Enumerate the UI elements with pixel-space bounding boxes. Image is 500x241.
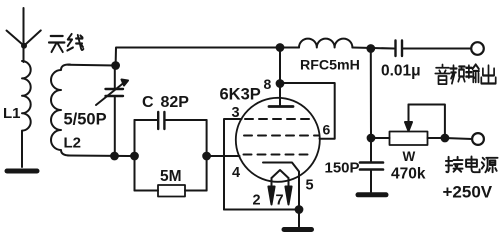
wire: to ground bbox=[298, 210, 300, 229]
heater lead pin 2 bbox=[271, 178, 273, 190]
potentiometer W 470k bbox=[371, 137, 390, 139]
svg-text:4: 4 bbox=[232, 165, 240, 181]
junction dot (pin 8 on top rail) bbox=[277, 44, 284, 51]
wire: pin 3 to cathode bus bbox=[224, 119, 242, 210]
terminal: audio output bbox=[471, 42, 484, 55]
svg-text:6K3P: 6K3P bbox=[220, 86, 261, 104]
junction dot H bbox=[442, 135, 449, 142]
capacitor C2 0.01u bbox=[394, 41, 396, 57]
junction dot (g2 tie) bbox=[277, 80, 284, 87]
inductor L1 bbox=[22, 61, 31, 167]
wire: g2 tie to pin 6 bbox=[280, 83, 335, 139]
anode bar bbox=[269, 105, 293, 108]
ground (cathode) bbox=[284, 227, 312, 232]
ground (150P) bbox=[358, 192, 386, 197]
capacitor C3 150P bbox=[370, 138, 372, 162]
choke RFC 5mH bbox=[299, 39, 352, 48]
junction dot D (RC right node / grid) bbox=[203, 153, 210, 160]
grid g3 (dashed, pin 3) bbox=[245, 118, 315, 120]
svg-text:7: 7 bbox=[276, 193, 284, 209]
svg-text:82P: 82P bbox=[161, 94, 190, 111]
RC box left side bbox=[134, 120, 136, 191]
svg-text:470k: 470k bbox=[391, 166, 426, 183]
junction dot C (RC left node) bbox=[131, 153, 138, 160]
junction dot B (varcap bottom) bbox=[111, 153, 118, 160]
ground (L1) bbox=[7, 169, 37, 174]
tube 6K3P envelope U1 bbox=[236, 98, 320, 182]
svg-text:0.01μ: 0.01μ bbox=[381, 63, 421, 80]
cathode (pin 5) bbox=[263, 163, 299, 210]
junction dot A (tank top) bbox=[112, 62, 119, 69]
label 天线 (antenna) bbox=[49, 34, 84, 52]
junction dot F (B+ node) bbox=[367, 45, 374, 52]
wire: to supply terminal bbox=[445, 138, 472, 139]
junction dot E (cathode/ground) bbox=[296, 206, 303, 213]
svg-text:+250V: +250V bbox=[443, 183, 493, 202]
label 接电源 (to power supply) bbox=[446, 156, 498, 172]
svg-text:5: 5 bbox=[306, 178, 314, 194]
wiper arm bbox=[408, 105, 410, 125]
wire: bottom bus bbox=[224, 209, 299, 211]
svg-text:6: 6 bbox=[323, 122, 331, 138]
inductor L2 bbox=[51, 64, 70, 155]
heater lead pin 7 bbox=[288, 178, 290, 190]
wire: grid to pin 4 bbox=[207, 155, 240, 157]
grid g1 (dashed, pin 4) bbox=[244, 154, 313, 156]
heater filament bbox=[272, 170, 289, 178]
svg-text:5/50P: 5/50P bbox=[64, 111, 107, 129]
grid g2 (dashed, pin 6) bbox=[244, 135, 319, 137]
wire: L2 top to junction bbox=[68, 64, 116, 67]
wire: B+ drop bbox=[370, 49, 372, 139]
variable capacitor 5/50P bbox=[114, 66, 116, 89]
svg-text:8: 8 bbox=[264, 76, 272, 92]
svg-text:150P: 150P bbox=[325, 160, 360, 177]
wire: riser to top rail bbox=[116, 48, 299, 66]
junction dot G bbox=[368, 135, 375, 142]
svg-text:5M: 5M bbox=[160, 168, 182, 185]
svg-text:W: W bbox=[403, 149, 416, 164]
terminal: power supply bbox=[472, 133, 484, 145]
anode lead pin 8 bbox=[279, 48, 281, 106]
svg-text:RFC5mH: RFC5mH bbox=[300, 58, 360, 74]
RC box right side bbox=[206, 120, 208, 191]
antenna bbox=[23, 8, 25, 62]
wire: rfc to coupling cap bbox=[352, 48, 394, 49]
svg-text:C: C bbox=[142, 94, 154, 111]
label 音频输出 (audio output) bbox=[435, 65, 495, 85]
wire: tank bottom bbox=[68, 155, 135, 158]
svg-text:L2: L2 bbox=[64, 135, 82, 152]
svg-text:3: 3 bbox=[232, 105, 240, 121]
svg-text:2: 2 bbox=[253, 193, 261, 209]
capacitor C1 82P bbox=[135, 119, 157, 121]
svg-text:L1: L1 bbox=[3, 105, 21, 122]
resistor 5M bbox=[135, 190, 159, 192]
